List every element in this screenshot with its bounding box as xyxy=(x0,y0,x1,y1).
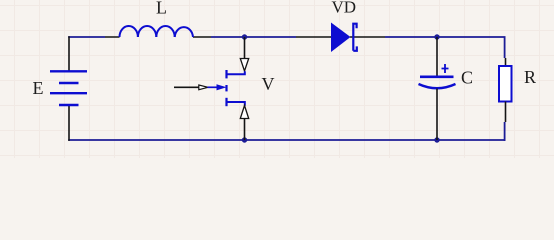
svg-text:V: V xyxy=(262,74,275,94)
inductor L pins (black) xyxy=(105,36,211,38)
svg-text:VD: VD xyxy=(332,0,357,17)
node junction dot (transistor top) xyxy=(242,34,247,39)
transistor V gate lead (blue) xyxy=(208,86,218,88)
battery E plates xyxy=(50,71,87,105)
svg-text:L: L xyxy=(156,0,167,18)
diode VD left pin (black) xyxy=(296,36,331,38)
wire: top rail diode to right corner and down xyxy=(385,37,505,58)
wire: right branch lower segment xyxy=(504,122,506,141)
transistor V gate open arrow xyxy=(199,85,208,90)
inductor L arcs xyxy=(120,26,194,37)
resistor R top pin (black) xyxy=(505,58,507,66)
transistor V top channel bar xyxy=(225,70,227,78)
node junction dot (transistor bottom) xyxy=(242,137,247,142)
svg-text:R: R xyxy=(524,67,536,87)
capacitor C bottom curved plate xyxy=(419,84,456,88)
transistor V gate wire (black) xyxy=(174,86,199,88)
transistor V emitter pin (black) xyxy=(244,119,246,141)
diode VD right pin (black) xyxy=(350,36,385,38)
svg-text:C: C xyxy=(461,68,473,88)
transistor V gate solid arrow xyxy=(217,84,227,90)
transistor V bottom channel bar xyxy=(225,98,227,106)
wire: top rail between inductor and diode xyxy=(211,36,296,38)
battery E pins (black) xyxy=(68,36,70,141)
transistor V collector pin (black) xyxy=(244,37,246,59)
diode VD anode triangle xyxy=(331,23,351,53)
capacitor C bottom pin (black) xyxy=(436,89,438,141)
diode VD cathode bar with schottky hooks xyxy=(353,24,357,51)
capacitor C top plate xyxy=(420,76,454,79)
capacitor C plus sign xyxy=(442,64,449,73)
transistor V collector open arrow xyxy=(240,59,248,72)
transistor V middle channel bar xyxy=(225,85,227,91)
resistor R body xyxy=(499,66,512,102)
capacitor C top pin (black) xyxy=(436,37,438,76)
transistor V collector lead (blue) xyxy=(227,71,245,74)
wire: bottom rail xyxy=(68,139,505,141)
node junction dot (capacitor bottom) xyxy=(434,137,439,142)
sheet background xyxy=(0,0,554,158)
wire: top rail left segment xyxy=(68,36,105,38)
svg-text:E: E xyxy=(33,78,44,98)
transistor V emitter lead (blue) xyxy=(227,102,245,106)
node junction dot (capacitor top) xyxy=(434,34,439,39)
resistor R bottom pin (black) xyxy=(505,102,507,123)
transistor V emitter open arrow xyxy=(240,106,248,119)
